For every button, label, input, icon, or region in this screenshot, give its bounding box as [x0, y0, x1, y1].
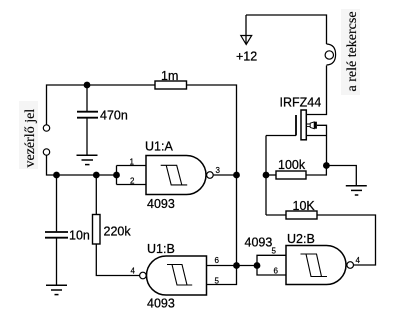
relay connector lower hook — [327, 55, 336, 66]
label background: a relé tekercse — [341, 9, 360, 95]
wire U1:B pin5 — [207, 266, 237, 285]
op-amp U1:B NAND schmitt body (mirrored) — [147, 256, 207, 295]
svg-text:3: 3 — [216, 166, 221, 175]
node input rail / 220k — [93, 172, 100, 179]
U2:B output bubble — [347, 262, 354, 269]
power +12 terminal stem — [245, 15, 247, 44]
label background: vezérlő jel — [19, 101, 38, 169]
svg-text:4: 4 — [131, 267, 136, 276]
relay connector upper hook — [327, 44, 336, 55]
svg-text:100k: 100k — [278, 158, 306, 172]
svg-text:6: 6 — [274, 266, 279, 275]
wire U2:B pin6 — [257, 266, 286, 276]
capacitor C1 470n — [86, 85, 88, 111]
wire +12 rail to relay connector — [246, 15, 327, 44]
wire gate to gate bar — [266, 135, 296, 137]
wire substrate to source vertical — [317, 125, 327, 165]
svg-text:a relé tekercse: a relé tekercse — [345, 11, 360, 91]
wire U2:B output to 10K feedback — [317, 215, 376, 265]
node U2:B inputs — [254, 262, 261, 269]
node top rail / 470n — [84, 82, 91, 89]
svg-text:470n: 470n — [100, 109, 128, 123]
svg-text:vezérlő jel: vezérlő jel — [23, 109, 38, 168]
wire 1m right to node bus — [187, 85, 237, 175]
U2:B hysteresis glyph — [301, 254, 328, 277]
svg-text:4: 4 — [356, 256, 361, 265]
U1:A hysteresis glyph — [161, 165, 188, 185]
resistor R1 1m (box) — [155, 81, 187, 89]
wire drain stub up to relay — [306, 66, 326, 115]
wire source node to ground — [326, 166, 356, 186]
wire MOSFET gate bus vertical — [265, 136, 267, 216]
svg-text:U1:A: U1:A — [145, 140, 173, 154]
svg-text:+12: +12 — [236, 50, 257, 64]
node U1:B inputs — [233, 262, 240, 269]
ground under 10n — [46, 284, 67, 286]
svg-text:4093: 4093 — [147, 297, 175, 311]
svg-text:U1:B: U1:B — [147, 242, 175, 256]
svg-text:6: 6 — [215, 256, 220, 265]
U1:B hysteresis glyph — [167, 265, 192, 286]
relay connector pin circle — [325, 51, 333, 59]
wire 220k bottom to U1:B output — [96, 244, 139, 276]
svg-text:5: 5 — [215, 276, 220, 285]
wire 100k right up to source node — [306, 166, 326, 176]
svg-text:10K: 10K — [293, 199, 316, 213]
wire U2:B pin5 — [257, 255, 286, 265]
svg-text:U2:B: U2:B — [287, 232, 315, 246]
node source / 100k / ground — [323, 162, 330, 169]
svg-text:2: 2 — [130, 177, 135, 186]
wire 10K left to gate bus — [266, 214, 286, 216]
Q1 substrate arrow — [307, 124, 311, 127]
svg-text:IRFZ44: IRFZ44 — [280, 96, 322, 110]
wire 100k left to gate bus — [266, 174, 276, 176]
wire U1:A output to bus — [213, 174, 236, 176]
ground under 470n — [77, 154, 98, 156]
U1:A output bubble — [207, 172, 214, 179]
op-amp U1:A NAND schmitt body — [146, 156, 206, 195]
svg-text:4093: 4093 — [245, 236, 273, 250]
wire node to U2:B input tie — [237, 265, 258, 267]
input terminal upper pin — [43, 125, 49, 131]
U1:A input tie wires pins 1,2 — [117, 166, 147, 185]
node input rail / 10n — [53, 172, 60, 179]
power +12 arrow — [241, 36, 252, 45]
op-amp U2:B NAND schmitt body — [286, 246, 346, 285]
svg-text:4093: 4093 — [147, 197, 175, 211]
svg-text:1: 1 — [130, 158, 135, 167]
wire U1:B pin6 — [207, 265, 237, 267]
resistor R4 100k (box) — [276, 171, 306, 179]
wire source stub — [306, 135, 326, 137]
svg-text:220k: 220k — [104, 225, 132, 239]
node gate bus / 100k — [263, 172, 270, 179]
resistor R2 220k (box) — [95, 175, 97, 215]
node input rail / U1:A inputs — [113, 172, 120, 179]
wire lower terminal to input node rail — [47, 155, 117, 175]
transistor Q1 gate bar — [295, 115, 297, 136]
input terminal lower pin — [43, 149, 49, 155]
U1:B output bubble — [140, 272, 147, 279]
svg-text:10n: 10n — [69, 229, 90, 243]
wire upper terminal to top rail — [47, 85, 156, 125]
capacitor C2 10n — [56, 175, 58, 231]
resistor R3 10K (box) — [286, 211, 317, 219]
ground right — [346, 185, 367, 187]
node U1:A output — [233, 172, 240, 179]
transistor Q1 channel rect — [301, 110, 306, 140]
svg-text:1m: 1m — [161, 69, 178, 83]
bus wire U1:A output down to U1:B/U2:B inputs — [236, 175, 238, 266]
